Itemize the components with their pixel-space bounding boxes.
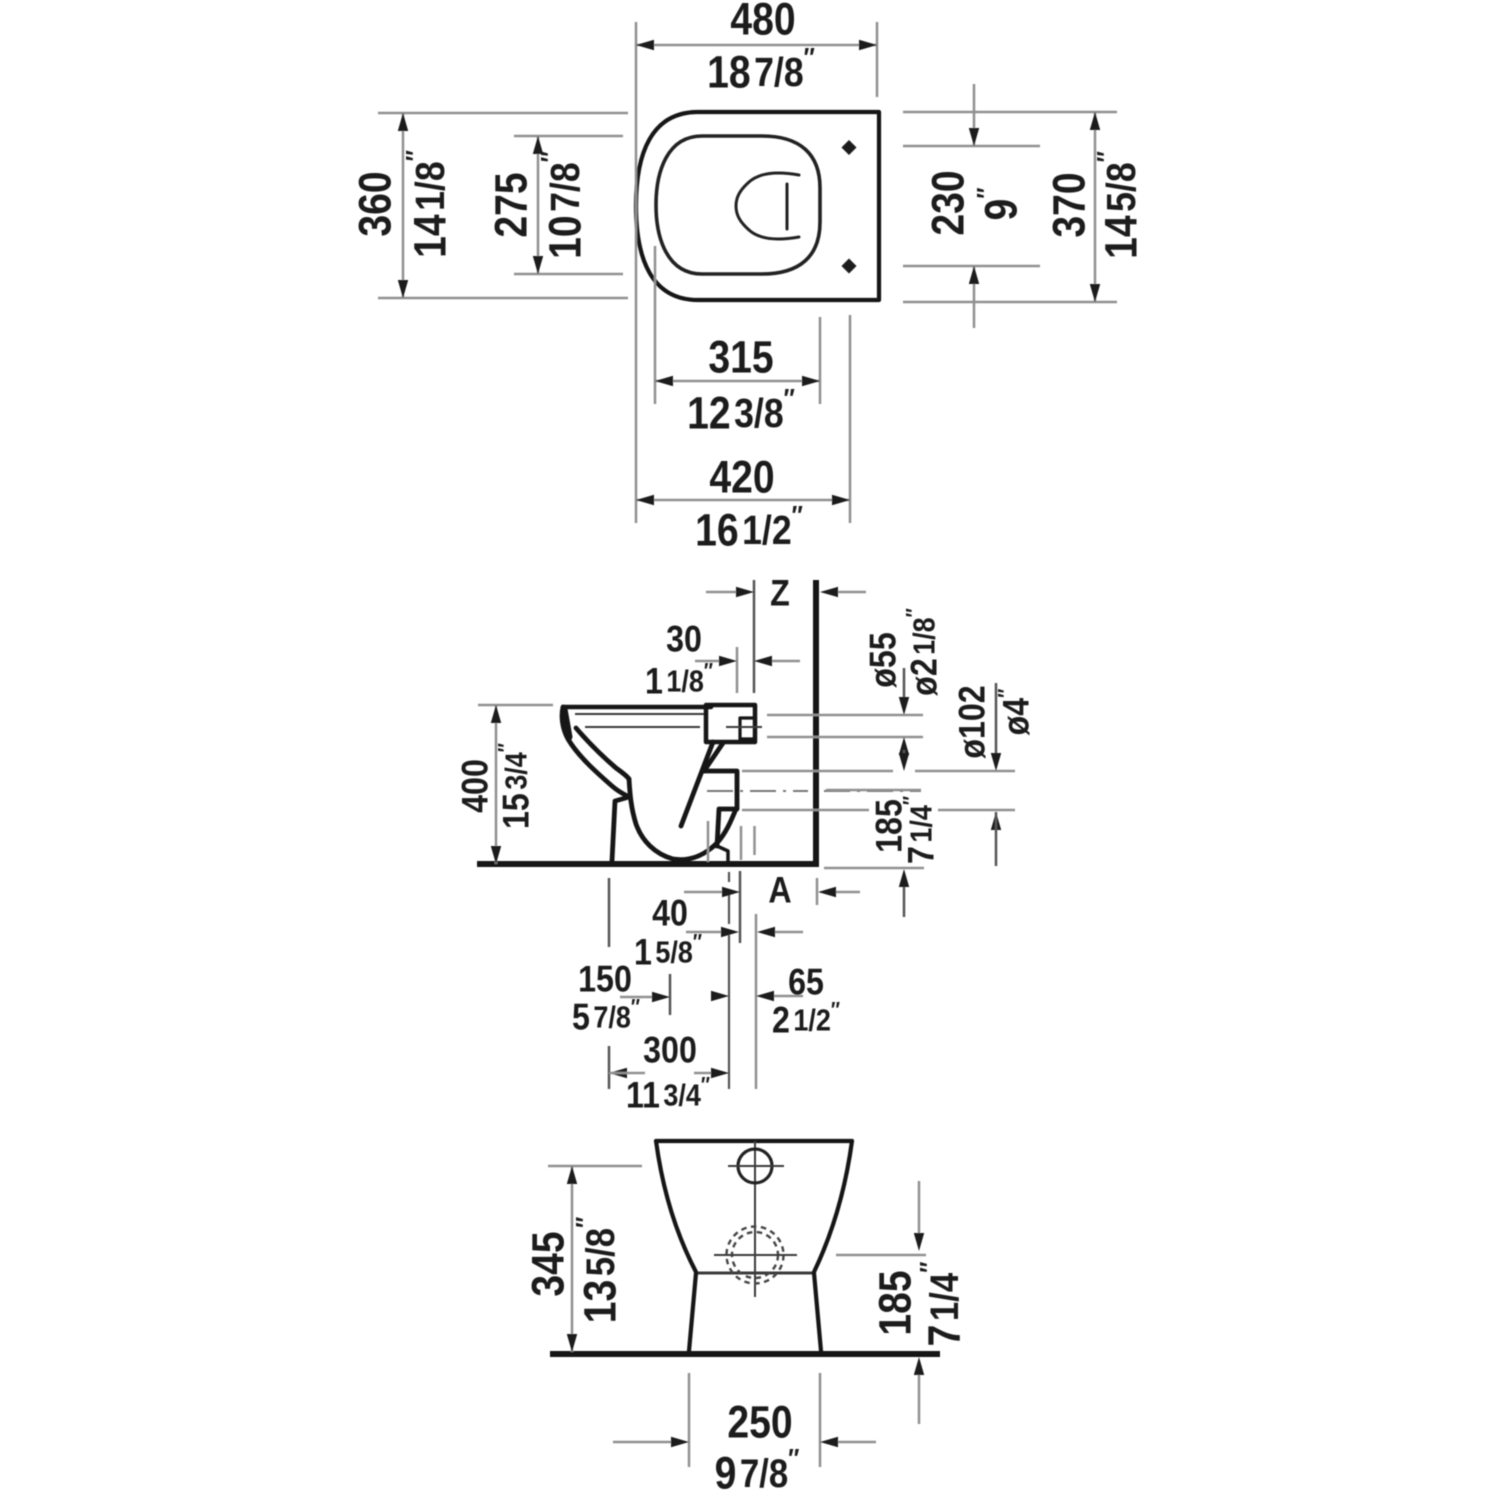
- svg-text:480: 480: [730, 0, 795, 44]
- reference line A below floor: [739, 871, 742, 943]
- svg-text:315: 315: [708, 332, 773, 382]
- side view: hidden pipe verticals: [707, 821, 710, 862]
- svg-text:360: 360: [350, 171, 400, 236]
- plan view: fixing hole top (diamond): [842, 140, 857, 155]
- dimension 400 / 15 3/4in (height): [478, 704, 553, 707]
- reference line Z (back of pan): [753, 580, 756, 693]
- gray reference line below floor: [755, 914, 758, 1089]
- dimension 230 / 9in (fixing holes distance): [903, 145, 1040, 148]
- side view: dash-dot outlet axis line: [707, 790, 808, 792]
- svg-text:97/8″: 97/8″: [715, 1444, 800, 1498]
- front view: waist line: [696, 1272, 814, 1275]
- side view: rim inner lines: [575, 713, 704, 715]
- side view: back step block: [704, 771, 737, 846]
- side view: outlet elbow near floor: [717, 846, 728, 864]
- dimension 315 / 12 3/8in (inner opening length): [654, 246, 657, 404]
- short reference line x670: [669, 974, 672, 1015]
- floor extension line right of wall: [824, 867, 924, 870]
- svg-text:135/8″: 135/8″: [571, 1217, 625, 1324]
- plan view: flush water inlet symbol: [736, 173, 799, 239]
- svg-text:370: 370: [1044, 172, 1094, 237]
- extension tick below wall for A dimension: [816, 878, 819, 905]
- dimension 275 / 10 7/8in (left inner width): [514, 135, 623, 138]
- svg-text:187/8″: 187/8″: [707, 43, 815, 97]
- svg-text:161/2″: 161/2″: [695, 501, 803, 555]
- dimension 30 / 1 1/8in: [695, 660, 719, 663]
- plan view: fixing hole bottom (diamond): [842, 259, 857, 274]
- front view: pedestal sides: [689, 1273, 696, 1351]
- svg-text:11/8″: 11/8″: [645, 659, 713, 703]
- svg-text:107/8″: 107/8″: [536, 151, 590, 259]
- dimension 420 / 16 1/2in (front to fixing holes): [849, 315, 852, 523]
- svg-text:ø55: ø55: [864, 632, 905, 687]
- svg-text:420: 420: [709, 452, 774, 502]
- dimension 370 / 14 5/8in (right outer width): [903, 111, 1117, 114]
- dimension 250 / 9 7/8in (base width): [688, 1373, 691, 1467]
- side view: inner bowl front wall: [576, 728, 629, 779]
- svg-text:40: 40: [652, 894, 688, 935]
- side view: back interior diagonal: [681, 742, 713, 826]
- front view: upper outlet circle: [738, 1149, 772, 1183]
- svg-text:230: 230: [923, 170, 973, 235]
- svg-text:300: 300: [643, 1031, 697, 1072]
- svg-text:ø21/8″: ø21/8″: [902, 608, 946, 696]
- gap arrows between outlet lines: [899, 737, 909, 755]
- front view: lower outlet circle (dashed): [727, 1227, 784, 1284]
- plan view: toilet outer outline: [636, 112, 879, 300]
- dimension 300 / 11 3/4in: [609, 1068, 627, 1078]
- dimension 185 / 7 1/4in (side, outlet height): [991, 812, 1001, 830]
- svg-text:153/4″: 153/4″: [494, 743, 538, 829]
- side view: back interior diagonal 2: [704, 743, 723, 771]
- dimension 150 / 5 7/8in: [620, 996, 652, 999]
- dashed reference line below floor: [728, 872, 730, 882]
- svg-text:150: 150: [578, 960, 632, 1001]
- floor line side view: [477, 861, 819, 867]
- svg-text:275: 275: [486, 172, 536, 237]
- dimension Z (wall distance): [706, 591, 736, 594]
- dimension 185 / 7 1/4in (front): [836, 1254, 926, 1257]
- dimension 360 / 14 1/8in (left outer width): [378, 112, 628, 115]
- svg-text:141/8″: 141/8″: [401, 150, 455, 258]
- svg-text:A: A: [768, 871, 791, 912]
- svg-text:250: 250: [727, 1397, 792, 1447]
- svg-text:345: 345: [523, 1231, 573, 1296]
- side view: outlet spigot inner: [740, 718, 755, 739]
- extension line for 30 dim: [736, 647, 739, 693]
- side view: rim front edge: [564, 709, 569, 737]
- side view: trap bowl curve: [629, 779, 736, 860]
- svg-text:123/8″: 123/8″: [687, 384, 795, 438]
- plan view: inner seat opening: [656, 136, 820, 274]
- side view: front exterior profile: [562, 707, 629, 861]
- svg-text:71/4″: 71/4″: [899, 796, 943, 864]
- svg-text:57/8″: 57/8″: [572, 995, 640, 1039]
- side view: outlet spigot box: [706, 705, 755, 742]
- side view: spigot centerline tick: [726, 726, 762, 728]
- svg-text:65: 65: [788, 963, 824, 1004]
- svg-text:21/2″: 21/2″: [772, 998, 840, 1042]
- svg-text:15/8″: 15/8″: [634, 930, 702, 974]
- dimension 480 / 18 7/8in (top width): [635, 22, 638, 523]
- svg-text:145/8″: 145/8″: [1092, 151, 1146, 259]
- wall line: [813, 580, 819, 866]
- front view: toilet outline: [656, 1139, 852, 1143]
- svg-text:ø102: ø102: [953, 685, 994, 758]
- svg-text:185: 185: [870, 1270, 920, 1335]
- svg-text:30: 30: [666, 620, 702, 661]
- front view: floor line: [550, 1351, 940, 1357]
- svg-text:113/4″: 113/4″: [626, 1073, 710, 1117]
- side view: toilet rim top: [563, 705, 711, 710]
- dimension A (outlet to wall): [684, 891, 722, 894]
- extension line x609: [608, 878, 611, 947]
- dimension 40 / 1 5/8in: [686, 931, 721, 934]
- dimension 345 / 13 5/8in (front height): [548, 1165, 642, 1168]
- front view: center line: [754, 1141, 756, 1297]
- svg-text:400: 400: [456, 759, 497, 813]
- svg-text:Z: Z: [770, 574, 790, 615]
- svg-text:71/4″: 71/4″: [915, 1262, 969, 1347]
- outlet reference lines right side: [767, 714, 923, 717]
- dimension 65 / 2 1/2in: [711, 991, 729, 1001]
